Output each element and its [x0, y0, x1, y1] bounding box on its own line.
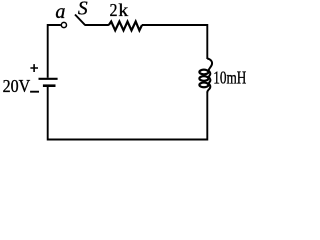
resistor 2k zigzag: [109, 22, 142, 31]
wire: resistor to top-right corner then down to inductor: [142, 25, 207, 59]
battery negative short plate: [43, 84, 56, 87]
inductor coil loop 2: [199, 76, 208, 81]
svg-text:k: k: [118, 0, 128, 20]
minus sign: [30, 91, 39, 93]
plus sign: [30, 64, 38, 72]
wire: switch pivot to resistor: [85, 24, 109, 26]
inductor coil right-side weave from entry to exit: [207, 59, 212, 93]
node a terminal circle: [61, 22, 66, 27]
wire: inductor bottom, bottom rail, left side up to battery - plate: [48, 87, 208, 140]
inductor coil loop 3: [199, 83, 208, 88]
svg-text:10mH: 10mH: [213, 67, 246, 87]
switch S blade (open): [75, 15, 85, 26]
inductor coil loop 1: [199, 70, 208, 75]
wire: left side from battery + plate up and across to node a: [48, 25, 61, 78]
svg-text:20V: 20V: [3, 76, 31, 96]
svg-text:S: S: [78, 0, 88, 19]
battery positive long plate: [39, 78, 58, 80]
svg-text:2: 2: [110, 0, 118, 20]
svg-text:a: a: [55, 2, 65, 23]
